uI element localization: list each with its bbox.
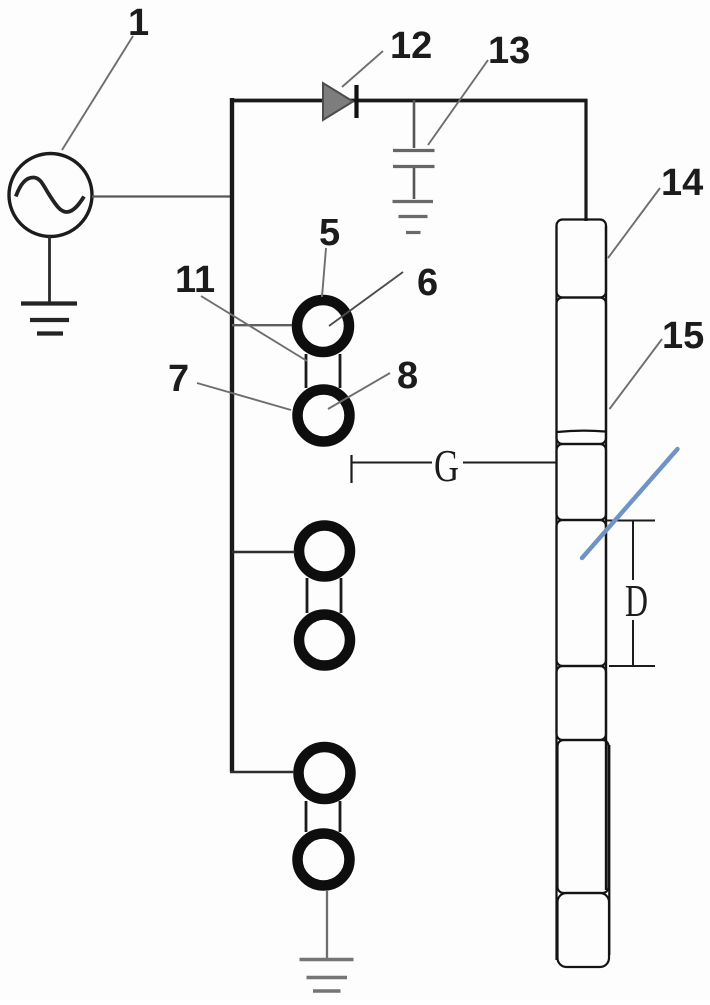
tube segment B (557, 298, 607, 445)
bottom ground (300, 960, 354, 992)
svg-text:G: G (434, 440, 459, 491)
leader to 6 (329, 272, 403, 326)
G dimension tick (350, 455, 352, 483)
leader to 14 (608, 188, 660, 258)
tube segment A (557, 220, 607, 298)
electrode ring pair 2 lower (299, 615, 350, 666)
electrode ring pair 3 lower (298, 834, 350, 886)
leader to 5 (322, 248, 326, 297)
svg-text:14: 14 (661, 162, 703, 204)
tube outer wall right lower (608, 745, 610, 955)
leader to 15 (610, 339, 663, 409)
wire bus corner to pair 3 (230, 771, 294, 774)
left bus wire (230, 98, 234, 772)
leader to 7 (197, 383, 291, 410)
electrode ring pair 2 upper (299, 526, 350, 577)
ground under capacitor (393, 202, 434, 233)
tube segment E (557, 666, 607, 740)
svg-text:15: 15 (662, 315, 704, 357)
svg-text:5: 5 (319, 212, 340, 254)
svg-text:12: 12 (390, 25, 432, 67)
G dimension line right (463, 462, 556, 464)
capacitor 13 plates (393, 149, 435, 152)
D dimension line upper (632, 521, 634, 580)
blue plasma jet line (582, 449, 678, 558)
ground under source (21, 304, 77, 334)
svg-text:D: D (625, 575, 648, 626)
tube segment C (557, 444, 607, 520)
wire bus to pair 2 (232, 551, 295, 553)
wire AC source to ground (48, 236, 51, 303)
wire bus to ring 5 (232, 324, 292, 326)
electrode ring pair 1 upper (5/6) (297, 300, 349, 352)
diode cathode bar (354, 85, 358, 118)
svg-text:8: 8 (397, 355, 418, 397)
tube segment G (558, 893, 610, 967)
leader to 12 (342, 51, 383, 87)
electrode ring pair 3 upper (299, 747, 351, 799)
connector tube pair 3 (305, 801, 308, 832)
D dimension top tick (607, 520, 655, 522)
diode 12 (323, 83, 353, 120)
svg-text:11: 11 (175, 259, 215, 301)
connector tube pair 2 (306, 578, 309, 613)
AC source 1 (9, 154, 92, 237)
discharge tube 14 segments (557, 220, 610, 968)
top wire (230, 99, 588, 103)
wire AC source to bus (92, 195, 232, 197)
tube outer wall right (605, 226, 607, 890)
capacitor 13 stem (413, 100, 416, 148)
right vertical wire (584, 99, 587, 221)
tube outer wall left (555, 226, 557, 960)
capacitor lower stem (413, 168, 416, 199)
bottom ground stem (326, 890, 328, 959)
tube inner divider line (557, 431, 605, 432)
svg-text:13: 13 (488, 30, 530, 72)
tube segment F (558, 740, 609, 893)
D dimension bottom tick (609, 665, 655, 667)
connector tube pair 1 (305, 354, 308, 388)
svg-text:6: 6 (417, 262, 438, 304)
svg-text:7: 7 (168, 358, 189, 400)
leader to 1 (62, 36, 133, 150)
D dimension line lower (632, 620, 634, 666)
leader to 13 (428, 60, 488, 145)
leader to 11 (201, 296, 307, 361)
leader to 8 (328, 373, 390, 409)
tube segment D (557, 520, 607, 666)
G dimension line left (352, 462, 433, 464)
electrode ring pair 1 lower (7/8) (298, 390, 350, 442)
